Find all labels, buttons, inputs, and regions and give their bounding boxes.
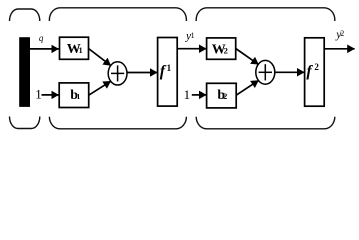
svg-text:2: 2 bbox=[224, 46, 228, 56]
svg-text:2: 2 bbox=[223, 92, 227, 101]
svg-text:1: 1 bbox=[184, 87, 191, 102]
svg-text:1: 1 bbox=[35, 86, 42, 101]
svg-text:2: 2 bbox=[340, 29, 344, 38]
svg-text:1: 1 bbox=[79, 46, 83, 55]
svg-text:q: q bbox=[39, 33, 44, 43]
svg-text:1: 1 bbox=[191, 31, 195, 40]
svg-text:f: f bbox=[306, 63, 313, 80]
svg-text:1: 1 bbox=[167, 63, 172, 73]
svg-text:1: 1 bbox=[77, 92, 81, 101]
svg-text:2: 2 bbox=[314, 62, 319, 72]
